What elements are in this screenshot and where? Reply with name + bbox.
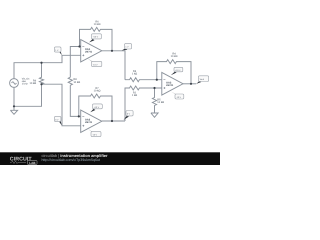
svg-text:10 kΩ: 10 kΩ (94, 90, 101, 93)
resistor R9 (source divider, vertical) (39, 63, 43, 84)
wire bottom opamp output (102, 120, 125, 122)
junction: OA1 output / R6 (111, 50, 113, 52)
resistor R7 label (94, 87, 101, 93)
svg-text:1 kHz: 1 kHz (22, 83, 29, 86)
svg-text:10 kΩ: 10 kΩ (171, 55, 178, 58)
callout flag probe bottom output node (124, 111, 134, 120)
op-amp OA2 LM741 (bottom) (81, 110, 102, 132)
svg-text:OA3: OA3 (166, 81, 172, 84)
resistor R3 label (132, 70, 137, 76)
source labels (22, 78, 30, 86)
callout flag Vout (196, 76, 209, 84)
resistor R6 label (94, 20, 101, 26)
junction: OA3 inverting input / R4 (156, 79, 158, 81)
footer bar (0, 152, 220, 165)
callout flag on OA2 V- (88, 129, 101, 137)
voltage source V1 Vin_sin (10, 79, 19, 88)
svg-text:circuitlab | instrumentation a: circuitlab | instrumentation amplifier (42, 153, 108, 158)
svg-text:1 kΩ: 1 kΩ (132, 94, 137, 97)
resistor R4 feedback right (horizontal) (157, 60, 191, 84)
resistor R7 feedback bottom (horizontal) (79, 94, 112, 121)
resistor R9 label (29, 79, 36, 84)
svg-text:LM741: LM741 (85, 121, 93, 124)
junction: OA2 inverting input / R7 (78, 115, 80, 117)
svg-text:-10 V: -10 V (176, 96, 182, 99)
svg-text:+10 V: +10 V (94, 106, 100, 109)
svg-text:OA1: OA1 (85, 48, 91, 51)
svg-text:LM741: LM741 (166, 84, 174, 87)
junction: OA2 output / R7 (111, 120, 113, 122)
junction: source bottom / ground (13, 105, 15, 107)
svg-text:OA2: OA2 (85, 119, 91, 122)
resistor R2 label (132, 92, 137, 98)
resistor R5 label (157, 99, 164, 105)
ground (right) (151, 113, 158, 117)
op-amp OA1 LM741 (top) (81, 40, 102, 62)
wire tap to bottom opamp + input (42, 84, 81, 126)
op-amp OA3 LM741 (right) (162, 72, 183, 95)
wire top opamp output (102, 51, 125, 80)
svg-text:LAB: LAB (29, 161, 36, 165)
svg-text:Vout: Vout (200, 78, 205, 81)
wire Rgain to bottom opamp - input (70, 85, 80, 116)
ground (left) (10, 106, 17, 114)
callout flag on OA3 V+ (171, 67, 183, 75)
svg-text:LM741: LM741 (85, 51, 93, 54)
svg-text:10 kΩ: 10 kΩ (73, 81, 80, 84)
junction: source top / R9 top (40, 62, 42, 64)
callout flag on OA2 V+ (90, 104, 102, 112)
resistor R6 feedback top (horizontal) (80, 27, 113, 50)
callout flag on OA1 V- (87, 58, 102, 66)
svg-text:-10 V: -10 V (92, 134, 98, 137)
svg-text:10 kΩ: 10 kΩ (94, 23, 101, 26)
junction: OA1 inverting input / R6 (78, 45, 80, 47)
callout flag on OA1 V+ (89, 34, 101, 43)
wire top opamp - input (70, 47, 80, 78)
wire right opamp output (183, 83, 196, 85)
wire source bottom loop (14, 84, 42, 106)
junction: R9 bottom tap (40, 83, 42, 85)
svg-text:1 kΩ: 1 kΩ (132, 72, 137, 75)
resistor R8 Rgain (vertical) (68, 77, 72, 85)
resistor R8 label (73, 78, 80, 84)
svg-text:http://circuitlab.com/c/7p39uk: http://circuitlab.com/c/7p39ukm5q6ut (42, 158, 101, 162)
callout flag on OA3 V- (171, 92, 184, 99)
svg-text:10 kΩ: 10 kΩ (157, 101, 164, 104)
resistor R5 to ground (vertical) (152, 88, 156, 113)
callout flag probe top + input node (54, 47, 61, 55)
wire source top to node (14, 55, 81, 78)
resistor R4 label (171, 53, 178, 59)
svg-text:-10 V: -10 V (93, 63, 99, 66)
resistor R3 (horizontal 1k) (125, 78, 162, 82)
junction: OA3 output / R4 (190, 83, 192, 85)
callout flag on bottom + input node (54, 116, 61, 125)
svg-text:10 kΩ: 10 kΩ (29, 82, 36, 85)
callout flag probe top output node (122, 44, 132, 51)
resistor R2 (horizontal 1k) (125, 86, 162, 121)
svg-text:+10 V: +10 V (93, 36, 99, 39)
svg-text:+10 V: +10 V (175, 69, 181, 72)
junction: OA3 non-inverting input / R5 (153, 87, 155, 89)
